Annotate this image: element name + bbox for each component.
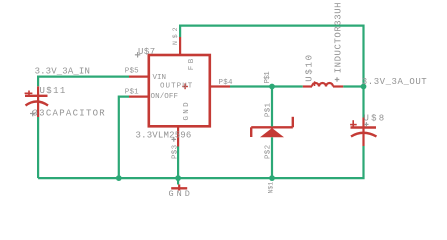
svg-text:N$1: N$1 <box>268 182 275 194</box>
svg-text:GND: GND <box>183 100 191 120</box>
svg-text:P$1: P$1 <box>264 71 272 84</box>
svg-text:P$2: P$2 <box>265 145 273 159</box>
svg-text:OUTPUT: OUTPUT <box>160 83 193 91</box>
svg-text:U$10: U$10 <box>304 53 314 81</box>
svg-text:3.3V_3A_OUT: 3.3V_3A_OUT <box>362 77 428 87</box>
svg-text:INDUCTOR33UH: INDUCTOR33UH <box>334 2 344 73</box>
svg-text:P$3: P$3 <box>172 144 180 159</box>
svg-text:FB: FB <box>188 56 196 70</box>
svg-text:N$2: N$2 <box>172 25 179 45</box>
svg-text:ON/OFF: ON/OFF <box>151 93 179 101</box>
svg-text:P$4: P$4 <box>219 79 234 87</box>
svg-text:3.3V_3A_IN: 3.3V_3A_IN <box>35 67 90 77</box>
svg-text:33CAPACITOR: 33CAPACITOR <box>33 109 107 119</box>
svg-text:U$8: U$8 <box>364 113 387 123</box>
svg-text:P$5: P$5 <box>125 68 139 76</box>
svg-text:GND: GND <box>169 189 193 199</box>
svg-text:U$11: U$11 <box>40 86 67 96</box>
svg-text:P$1: P$1 <box>264 102 272 117</box>
svg-text:VIN: VIN <box>153 74 167 82</box>
svg-text:P$1: P$1 <box>125 88 139 96</box>
svg-text:U$7: U$7 <box>138 47 156 57</box>
svg-text:3.3VLM2596: 3.3VLM2596 <box>136 130 192 140</box>
